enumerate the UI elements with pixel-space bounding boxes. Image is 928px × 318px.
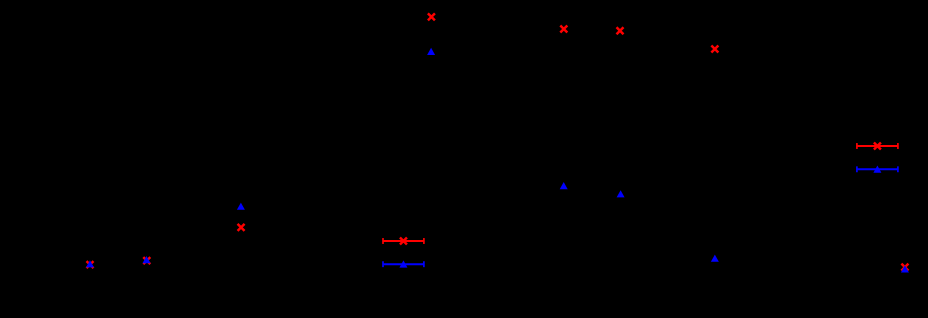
right legend red x marker [874, 143, 881, 150]
red x marker 1 [428, 13, 435, 20]
right legend blue triangle marker [873, 166, 881, 173]
right legend red errorbar [857, 143, 898, 149]
blue triangle marker 7 (over red x 7) [143, 256, 151, 263]
blue triangle marker 6 (over red x 6) [86, 260, 94, 267]
left legend blue errorbar [383, 261, 424, 267]
blue triangle marker 1 [427, 48, 435, 55]
right legend blue errorbar [857, 166, 898, 172]
blue triangle marker 5 [711, 255, 719, 262]
red x marker 2 [560, 26, 567, 33]
left legend red errorbar [383, 238, 424, 244]
red x marker 5 [238, 224, 245, 231]
blue triangle marker 2 [560, 182, 568, 189]
red x marker 7 (under triangle) [143, 257, 150, 264]
red x marker 8 (under triangle) [901, 264, 908, 271]
red x marker 6 (under triangle) [87, 261, 94, 268]
left legend blue triangle marker [399, 260, 407, 267]
left legend red x marker [400, 238, 407, 245]
blue triangle marker 4 [237, 203, 245, 210]
red x marker 4 [711, 45, 718, 52]
red x marker 3 [617, 27, 624, 34]
blue triangle marker 3 [617, 190, 625, 197]
blue triangle marker 8 (over red x 8) [901, 265, 909, 272]
